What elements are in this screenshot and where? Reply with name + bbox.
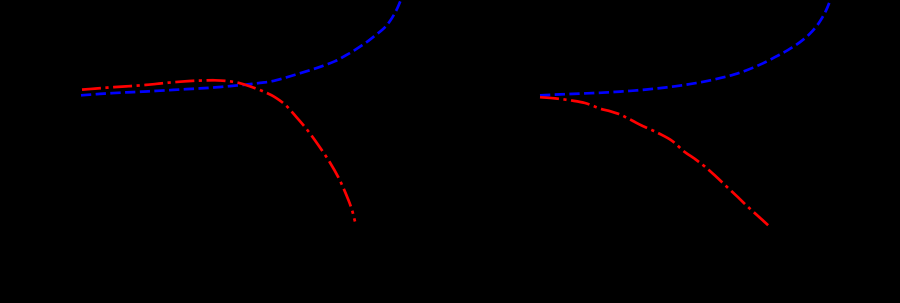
left panel red dash-dot curve <box>82 80 355 221</box>
right panel red dash-dot curve <box>540 97 770 226</box>
left panel blue dashed curve <box>81 0 402 95</box>
right panel blue dashed curve <box>540 0 831 95</box>
